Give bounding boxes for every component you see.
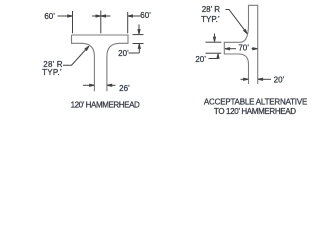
svg-text:TYP.’: TYP.’ <box>201 15 220 24</box>
svg-text:20’: 20’ <box>195 55 206 64</box>
svg-text:TO 120’ HAMMERHEAD: TO 120’ HAMMERHEAD <box>214 107 296 116</box>
svg-text:ACCEPTABLE ALTERNATIVE: ACCEPTABLE ALTERNATIVE <box>204 97 307 106</box>
svg-text:20’: 20’ <box>274 75 285 84</box>
svg-text:60’: 60’ <box>44 12 55 21</box>
svg-text:26’: 26’ <box>119 84 130 93</box>
svg-text:TYP.’: TYP.’ <box>42 68 62 77</box>
svg-text:60’: 60’ <box>140 11 151 20</box>
svg-text:70’: 70’ <box>238 44 249 53</box>
svg-text:20’: 20’ <box>118 49 129 58</box>
svg-text:120’ HAMMERHEAD: 120’ HAMMERHEAD <box>71 100 140 109</box>
svg-text:28’ R: 28’ R <box>202 5 221 14</box>
